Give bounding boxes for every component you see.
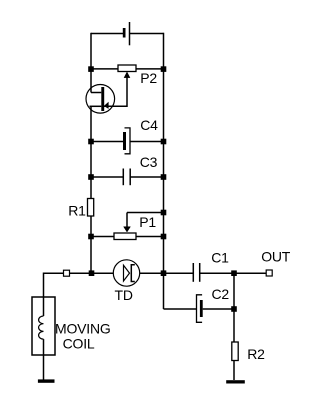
wire right rail: [163, 33, 165, 309]
wire C1 to OUT: [200, 272, 266, 274]
wire left rail mid: [90, 106, 92, 198]
wire top-right from battery to right rail: [130, 33, 164, 35]
node junction left rail / C4 row: [88, 139, 94, 145]
wire input row to TD: [70, 272, 114, 274]
wire input row left with corner down to coil box: [44, 273, 64, 297]
svg-text:TD: TD: [115, 287, 133, 303]
wire C3 row left: [91, 176, 123, 178]
svg-text:P1: P1: [139, 214, 156, 230]
wire TD to C1: [140, 272, 194, 274]
wire C3 row right: [130, 176, 163, 178]
wire top-left from battery to left rail: [91, 33, 123, 35]
wire P2 row left: [91, 68, 118, 70]
wire P1 wiper row: [127, 212, 164, 214]
node junction right rail / C4 row: [161, 139, 167, 145]
wire P2 wiper down to transistor: [104, 78, 127, 107]
wire P1 row left: [91, 236, 114, 238]
transistor Q1: [86, 85, 115, 114]
wire OUT node down through C2 node to R2: [233, 273, 235, 342]
wire C2 row left: [164, 308, 197, 310]
svg-text:OUT: OUT: [261, 249, 291, 265]
potentiometer P2: [118, 65, 136, 78]
capacitor C4: [123, 128, 130, 154]
node junction left rail / input row: [89, 270, 95, 276]
wire C2 row right: [203, 308, 234, 310]
wire left rail upper: [90, 33, 92, 93]
wire P2 row right: [136, 68, 164, 70]
capacitor C2: [197, 295, 203, 323]
node junction right rail / P1 row: [161, 234, 167, 240]
node junction left rail / P1 row: [88, 234, 94, 240]
node junction right rail / P1 wiper row: [161, 210, 167, 216]
wire P1 wiper down: [126, 213, 128, 228]
svg-text:R2: R2: [247, 346, 265, 362]
svg-text:C2: C2: [212, 286, 230, 302]
node junction right rail / C1 row: [161, 270, 167, 276]
svg-text:P2: P2: [140, 70, 157, 86]
ground right: [226, 380, 245, 383]
node junction left rail / P2 row: [88, 66, 94, 72]
node junction OUT / R2 top: [231, 270, 237, 276]
wire C4 row right: [130, 141, 164, 143]
svg-text:C1: C1: [211, 250, 229, 266]
svg-text:MOVING: MOVING: [55, 321, 111, 337]
svg-text:C3: C3: [140, 154, 158, 170]
wire P1 row right: [136, 236, 164, 238]
node junction C2 right / R2 branch: [231, 306, 237, 312]
node junction right rail / P2 row: [161, 66, 167, 72]
svg-text:C4: C4: [140, 117, 158, 133]
ground left: [38, 379, 55, 382]
tunnel diode TD: [113, 260, 139, 286]
wire coil box to ground: [43, 355, 45, 380]
capacitor C3: [123, 169, 130, 186]
battery B1: [123, 22, 130, 45]
terminal input (open square): [64, 270, 70, 276]
capacitor C1: [193, 263, 199, 282]
wire C4 row left: [91, 141, 123, 143]
wire R2 to ground: [233, 361, 235, 381]
terminal OUT (open square): [266, 270, 272, 276]
node junction right rail / C3 row: [161, 174, 167, 180]
svg-text:R1: R1: [68, 202, 86, 218]
svg-text:COIL: COIL: [63, 336, 95, 352]
node junction left rail / C3 row: [88, 174, 94, 180]
resistor R2: [232, 342, 238, 361]
wire left rail lower: [90, 216, 92, 273]
moving coil L1 (box): [32, 297, 55, 355]
potentiometer P1: [114, 227, 136, 240]
resistor R1: [88, 199, 94, 217]
